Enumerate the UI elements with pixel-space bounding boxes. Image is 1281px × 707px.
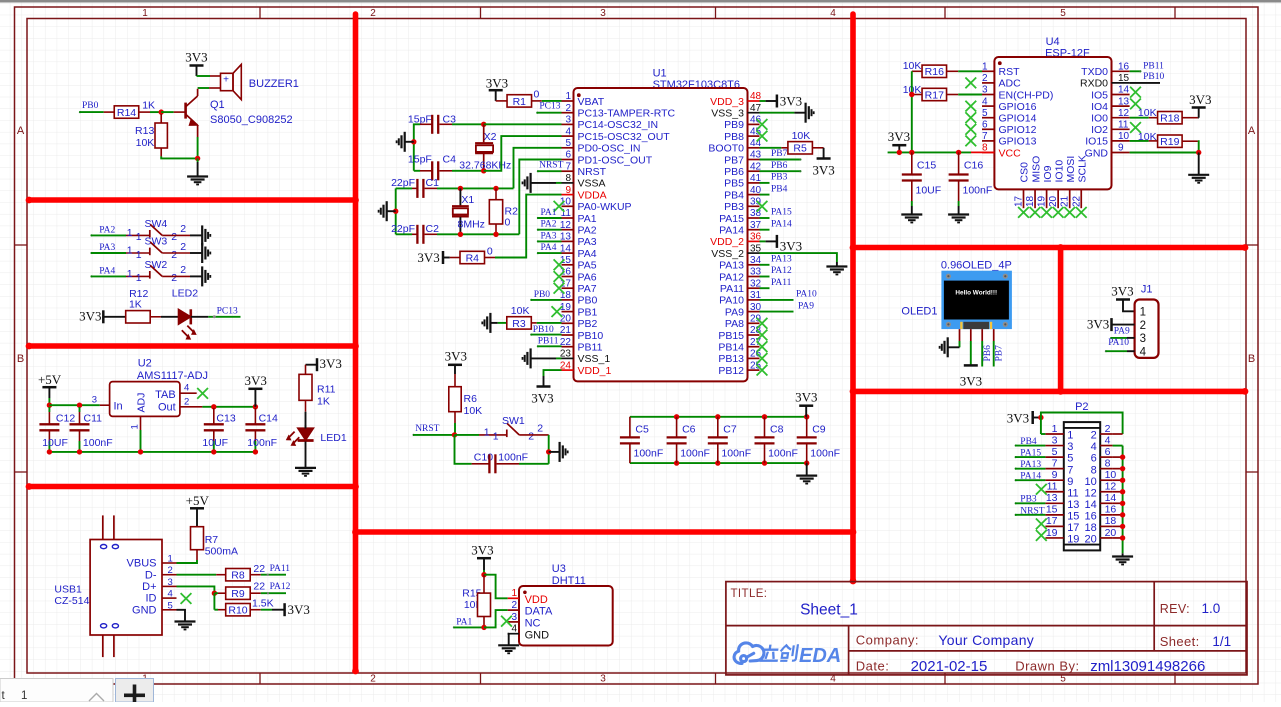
svg-text:3V3: 3V3 [531, 391, 553, 406]
wire C1/C2 left rail [395, 188, 397, 234]
svg-text:SW4: SW4 [145, 218, 168, 230]
svg-text:1: 1 [127, 227, 133, 239]
svg-text:BUZZER1: BUZZER1 [249, 78, 299, 90]
power flag 3V3 (VDD_1 pin24) [544, 370, 562, 376]
U1 pin 48 VDD_3 [748, 100, 760, 102]
svg-text:22pF: 22pF [391, 177, 415, 189]
svg-text:PA5: PA5 [578, 260, 597, 272]
svg-text:RST: RST [999, 66, 1021, 78]
power flag 3V3 (R5) [823, 148, 825, 159]
svg-text:10UF: 10UF [916, 184, 942, 196]
P2 pin 15 [1045, 514, 1063, 516]
svg-text:R19: R19 [1160, 136, 1179, 148]
section divider horizontal line y532 [356, 529, 854, 535]
svg-text:2: 2 [528, 431, 534, 443]
svg-text:PA7: PA7 [578, 283, 597, 295]
wire SW4 to gnd [162, 234, 190, 236]
wire R19 to GND rail [1197, 141, 1200, 152]
svg-text:14: 14 [1085, 499, 1097, 511]
svg-text:R13: R13 [135, 125, 154, 137]
power flag 3V3 (VDD_3 pin48) [760, 100, 766, 102]
U1 pin 34 PA13 [748, 264, 760, 266]
svg-text:ID: ID [146, 593, 157, 605]
svg-text:4: 4 [1105, 434, 1111, 446]
svg-text:Hello World!!!: Hello World!!! [955, 289, 997, 296]
svg-text:U2: U2 [138, 358, 152, 370]
wire NRST [412, 434, 414, 436]
ground (32k osc) [404, 132, 406, 152]
svg-text:PA11: PA11 [771, 278, 792, 288]
P2 pin 13 [1045, 502, 1063, 504]
svg-text:PC14-OSC32_IN: PC14-OSC32_IN [578, 119, 659, 131]
svg-text:PB1: PB1 [578, 306, 598, 318]
power flag 3V3 (R10) [283, 603, 286, 616]
U1 pin 21 PB10 [562, 334, 574, 336]
bottom osc rail [460, 233, 519, 235]
svg-text:100nF: 100nF [768, 447, 798, 459]
no-connect pins 29-25 [757, 318, 768, 329]
svg-text:10K: 10K [136, 137, 155, 149]
svg-text:1: 1 [511, 588, 517, 599]
junction 3V3/R15 [481, 572, 486, 577]
svg-text:PB6: PB6 [724, 166, 744, 178]
svg-text:3V3: 3V3 [79, 309, 101, 324]
svg-text:Q1: Q1 [210, 99, 225, 111]
svg-text:C13: C13 [216, 413, 235, 425]
svg-text:6: 6 [982, 120, 988, 131]
U1 pin 44 BOOT0 [748, 147, 760, 149]
wire PA3 to SW3 [90, 252, 92, 254]
wire SW2 to gnd [162, 275, 190, 277]
wire D+ to R10 [213, 593, 215, 610]
U4 pin 20 IO10 [1057, 189, 1059, 208]
add sheet button [116, 679, 154, 703]
svg-text:0.96OLED_4P: 0.96OLED_4P [941, 260, 1012, 272]
svg-text:VCC: VCC [999, 147, 1022, 159]
P2 pin 16 [1100, 514, 1112, 516]
U1 pin 36 VDD_2 [748, 240, 760, 242]
LED1 [298, 428, 314, 440]
U4 pin 6 GPIO12 [982, 128, 994, 130]
svg-text:PA10: PA10 [719, 295, 744, 307]
svg-text:3V3: 3V3 [445, 349, 467, 364]
transistor Q1 S8050_C908252 [184, 103, 187, 119]
svg-text:SW2: SW2 [145, 259, 168, 271]
svg-text:18: 18 [1105, 515, 1117, 527]
svg-text:REV:: REV: [1160, 602, 1190, 616]
svg-text:4: 4 [1140, 346, 1147, 358]
svg-text:Your Company: Your Company [938, 632, 1034, 648]
svg-text:1.5K: 1.5K [252, 597, 274, 609]
row tick marks [15, 244, 28, 246]
resistor R1 0 [507, 95, 532, 107]
resistor R6 10K [454, 374, 456, 387]
U3 pin 4 GND + ground [508, 633, 519, 635]
svg-text:18: 18 [1025, 195, 1036, 207]
svg-text:ADC: ADC [999, 78, 1022, 90]
top window edge bar [0, 0, 1281, 3]
U3 pin 1 VDD [508, 597, 519, 599]
svg-text:NRST: NRST [578, 166, 607, 178]
svg-text:GPIO14: GPIO14 [999, 113, 1037, 125]
P2 pin 8 [1100, 468, 1112, 470]
OLED pin 1 GND [959, 329, 961, 341]
svg-text:CS0: CS0 [1019, 162, 1031, 183]
svg-text:29: 29 [750, 314, 762, 325]
U1 pin 26 PB13 [748, 357, 760, 359]
wire C3 left elbow [414, 124, 417, 171]
junction X2 bottom [481, 168, 486, 173]
ground (VSS_3 pin47) [760, 112, 795, 114]
pin ID no-connect [181, 593, 192, 604]
wire 3V3 to VDD pin1 [484, 575, 508, 599]
svg-text:AMS1117-ADJ: AMS1117-ADJ [137, 370, 208, 382]
svg-text:RXD0: RXD0 [1080, 78, 1108, 90]
svg-text:R7: R7 [205, 534, 219, 546]
svg-text:EN(CH-PD): EN(CH-PD) [999, 89, 1054, 101]
U1 pin 28 PB15 [748, 334, 760, 336]
svg-text:2: 2 [1140, 320, 1146, 332]
svg-text:6: 6 [1105, 446, 1111, 458]
svg-text:+5V: +5V [186, 493, 210, 508]
svg-text:LED2: LED2 [172, 288, 198, 300]
svg-text:PA6: PA6 [578, 271, 597, 283]
svg-text:3V3: 3V3 [471, 543, 493, 558]
svg-text:PB9: PB9 [724, 119, 744, 131]
svg-text:PD1-OSC_OUT: PD1-OSC_OUT [578, 154, 653, 166]
P2 pin 17 [1045, 525, 1063, 527]
ground (C16) [948, 213, 969, 215]
svg-text:3: 3 [1140, 333, 1146, 345]
svg-text:10K: 10K [792, 130, 811, 142]
svg-text:VDDA: VDDA [578, 189, 607, 201]
svg-text:8: 8 [1091, 464, 1097, 476]
svg-text:SW3: SW3 [145, 236, 168, 248]
svg-text:12: 12 [560, 220, 572, 231]
svg-text:GPIO13: GPIO13 [999, 136, 1037, 148]
svg-text:5: 5 [1067, 453, 1073, 465]
svg-text:A: A [1248, 125, 1256, 137]
svg-text:2: 2 [180, 264, 186, 276]
svg-text:PA13: PA13 [719, 260, 744, 272]
svg-text:PB0: PB0 [534, 290, 551, 300]
svg-text:GPIO12: GPIO12 [999, 124, 1037, 136]
svg-text:PB6: PB6 [983, 345, 993, 362]
no-connect pins 15-17 [554, 259, 565, 270]
svg-text:2: 2 [1091, 430, 1097, 442]
svg-text:100nF: 100nF [680, 447, 710, 459]
svg-text:PB14: PB14 [718, 342, 744, 354]
svg-text:MOSI: MOSI [1065, 156, 1077, 183]
U3 pin 2 DATA [508, 609, 519, 611]
svg-text:1: 1 [484, 426, 490, 438]
wire PA4 to SW2 [90, 275, 92, 277]
svg-text:C11: C11 [84, 413, 103, 425]
svg-text:5: 5 [565, 138, 571, 149]
column tick marks top [259, 7, 261, 19]
U4 pin 15 RXD0 [1112, 82, 1130, 84]
svg-text:C12: C12 [56, 413, 75, 425]
svg-text:R4: R4 [466, 252, 480, 264]
U1 pin 40 PB4 [748, 194, 760, 196]
svg-text:Drawn By:: Drawn By: [1015, 659, 1079, 674]
svg-text:8: 8 [565, 173, 571, 184]
svg-text:VBAT: VBAT [578, 96, 605, 108]
resistor R9 22 [226, 587, 251, 599]
P2 pin 12 [1100, 491, 1112, 493]
svg-text:14: 14 [560, 243, 572, 254]
svg-text:PB10: PB10 [578, 330, 604, 342]
svg-text:PA11: PA11 [720, 283, 744, 295]
resistor R11 1K [305, 365, 307, 375]
svg-text:0: 0 [534, 88, 540, 100]
svg-text:19: 19 [1067, 534, 1079, 546]
svg-text:IO5: IO5 [1091, 89, 1108, 101]
svg-text:PB0: PB0 [578, 295, 598, 307]
U1 pin 12 PA2 [562, 229, 574, 231]
svg-text:D+: D+ [142, 581, 156, 593]
capacitor C8 100nF [762, 414, 767, 419]
svg-text:100nF: 100nF [498, 452, 528, 464]
no-connect pin45 PB8 [757, 131, 768, 142]
svg-text:zml13091498266: zml13091498266 [1090, 658, 1205, 675]
svg-text:3V3: 3V3 [486, 76, 508, 91]
svg-text:17: 17 [1014, 195, 1025, 207]
svg-text:19: 19 [1037, 195, 1048, 207]
svg-text:13: 13 [1118, 96, 1130, 107]
U4 pin 22 SCLK [1080, 189, 1082, 208]
svg-text:PB13: PB13 [718, 353, 744, 365]
section divider vertical line x853 [850, 14, 856, 581]
U1 pin 7 NRST [562, 170, 574, 172]
svg-text:R14: R14 [117, 107, 136, 119]
svg-text:R17: R17 [925, 89, 944, 101]
svg-text:PA14: PA14 [719, 225, 744, 237]
svg-text:P2: P2 [1075, 401, 1088, 413]
wire pin5 elbow [514, 148, 562, 189]
svg-text:6: 6 [565, 150, 571, 161]
U4 pin 2 ADC [982, 82, 994, 84]
no-connect P2 pins 11 17 19 [1036, 484, 1047, 495]
wire emitter down [197, 125, 199, 137]
svg-text:3: 3 [1052, 434, 1058, 446]
svg-text:15: 15 [560, 255, 572, 266]
junction gnd tap (32k) [411, 139, 416, 144]
capacitor C14 100nF [254, 408, 256, 424]
svg-text:VSS_2: VSS_2 [711, 248, 744, 260]
svg-text:PB10: PB10 [533, 325, 554, 335]
P2 pin 10 [1100, 479, 1112, 481]
svg-text:B: B [1248, 353, 1255, 365]
svg-text:U4: U4 [1046, 36, 1060, 48]
U4 pin 17 CS0 [1023, 189, 1025, 208]
svg-text:4: 4 [565, 126, 571, 137]
svg-text:2: 2 [1105, 423, 1111, 435]
capacitor C13 10UF [213, 408, 215, 424]
svg-text:VDD_1: VDD_1 [578, 365, 612, 377]
svg-text:1: 1 [136, 249, 142, 261]
svg-text:1: 1 [127, 245, 133, 257]
svg-text:SW1: SW1 [502, 415, 525, 427]
svg-text:GPIO16: GPIO16 [999, 101, 1037, 113]
svg-text:2: 2 [171, 249, 177, 261]
svg-text:2: 2 [511, 600, 517, 611]
svg-text:1: 1 [142, 8, 148, 19]
title block frame [726, 582, 1247, 675]
OLED corner screws [946, 274, 951, 279]
U1 pin 16 PA6 [562, 276, 574, 278]
no-connect IO2 [1130, 122, 1141, 133]
svg-text:0: 0 [505, 217, 511, 229]
svg-text:6: 6 [1091, 453, 1097, 465]
LCEDA logo glyph chuang [780, 645, 798, 661]
junction gnd tap (SW1) [546, 449, 551, 454]
svg-text:2: 2 [370, 8, 376, 19]
U1 pin 15 PA5 [562, 264, 574, 266]
no-connect pin10 [554, 201, 565, 212]
svg-text:1: 1 [493, 431, 499, 443]
junction R19/GND [1196, 150, 1201, 155]
svg-text:2: 2 [565, 103, 571, 114]
svg-text:PA11: PA11 [270, 564, 291, 574]
svg-text:3V3: 3V3 [960, 374, 982, 389]
U4 pin 11 IO2 [1112, 128, 1130, 130]
P2 pin 14 [1100, 502, 1112, 504]
svg-text:7: 7 [982, 131, 988, 142]
wire R7 to VBUS [177, 560, 198, 563]
svg-text:PD0-OSC_IN: PD0-OSC_IN [578, 143, 641, 155]
P2 pin 1 [1045, 433, 1063, 435]
svg-text:Sheet_1: Sheet_1 [800, 602, 858, 619]
svg-text:PB8: PB8 [724, 131, 744, 143]
svg-text:100nF: 100nF [247, 437, 277, 449]
svg-text:PA4: PA4 [578, 248, 597, 260]
svg-text:PB2: PB2 [578, 318, 598, 330]
U1 pin 1 VBAT [562, 100, 574, 102]
svg-text:24: 24 [560, 360, 572, 371]
svg-text:C2: C2 [426, 223, 440, 235]
P2 pin 4 [1100, 445, 1112, 447]
wire 3V3 to P2 pin1/pin2 [1041, 413, 1123, 435]
power flag 3V3 (VDD_2 pin36) [760, 240, 766, 242]
svg-text:5: 5 [1060, 8, 1066, 19]
svg-text:15pF: 15pF [408, 153, 432, 165]
svg-text:3V3: 3V3 [812, 162, 834, 177]
U4 pin 4 GPIO16 [982, 105, 994, 107]
svg-text:C14: C14 [259, 413, 278, 425]
svg-text:USB1: USB1 [54, 584, 82, 596]
svg-text:22: 22 [253, 563, 265, 575]
svg-text:20: 20 [1048, 195, 1059, 207]
svg-text:PB10: PB10 [1143, 72, 1164, 82]
wire PA1 to DATA pin2 [484, 610, 508, 627]
svg-text:C15: C15 [917, 159, 936, 171]
U4 pin 8 VCC [982, 152, 994, 154]
junction NRST node [452, 432, 457, 437]
power flag 3V3 (R18) [1197, 117, 1200, 119]
svg-text:9: 9 [1052, 469, 1058, 481]
U1 pin 23 VSS_1 [562, 357, 574, 359]
resistor R2 0 [493, 186, 498, 191]
U1 pin 9 VDDA [562, 194, 574, 196]
svg-text:1: 1 [127, 268, 133, 280]
U4 pin 9 GND [1112, 152, 1130, 154]
ground (ESP) [1188, 174, 1209, 176]
svg-text:IO9: IO9 [1042, 165, 1054, 182]
wire base junction [159, 109, 164, 114]
svg-text:TAB: TAB [155, 389, 176, 401]
svg-text:PB12: PB12 [718, 365, 744, 377]
svg-text:PA9: PA9 [725, 306, 744, 318]
svg-text:U1: U1 [653, 68, 667, 80]
svg-text:22: 22 [1071, 195, 1082, 207]
svg-text:2: 2 [370, 674, 376, 685]
svg-text:U3: U3 [552, 563, 566, 575]
svg-text:9: 9 [565, 185, 571, 196]
svg-text:18: 18 [1085, 522, 1097, 534]
svg-text:39: 39 [750, 197, 762, 208]
svg-text:17: 17 [1046, 515, 1058, 527]
svg-text:3V3: 3V3 [320, 356, 342, 371]
U1 pin 46 PB9 [748, 123, 760, 125]
svg-text:R9: R9 [231, 588, 245, 600]
svg-text:3V3: 3V3 [795, 389, 817, 404]
U1 pin 43 PB7 [748, 159, 760, 161]
svg-text:NC: NC [525, 618, 541, 630]
svg-text:14: 14 [1105, 492, 1117, 504]
svg-text:1: 1 [136, 231, 142, 243]
svg-text:17: 17 [1067, 522, 1079, 534]
U1 pin 29 PA8 [748, 322, 760, 324]
U1 pin 35 VSS_2 [748, 252, 760, 254]
svg-text:1: 1 [1067, 430, 1073, 442]
svg-text:X1: X1 [461, 194, 474, 206]
svg-text:PA0-WKUP: PA0-WKUP [578, 201, 632, 213]
divider junction dots [352, 197, 359, 204]
svg-text:R18: R18 [1160, 113, 1179, 125]
svg-text:PA10: PA10 [1108, 338, 1129, 348]
svg-text:13: 13 [1067, 499, 1079, 511]
U4 pin 18 MISO [1034, 189, 1036, 208]
U1 pin 10 PA0-WKUP [562, 205, 574, 207]
svg-text:MISO: MISO [1030, 156, 1042, 183]
svg-text:100nF: 100nF [810, 447, 840, 459]
U1 pin 18 PB0 [562, 299, 574, 301]
svg-text:+: + [223, 75, 229, 86]
svg-text:3V3: 3V3 [780, 238, 802, 253]
capacitor C6 100nF [674, 414, 679, 419]
svg-text:1K: 1K [129, 298, 142, 310]
svg-text:1: 1 [1140, 307, 1146, 319]
svg-text:500mA: 500mA [205, 545, 238, 557]
svg-text:+5V: +5V [38, 372, 62, 387]
U1 pin 13 PA3 [562, 240, 574, 242]
ground (USB) [175, 620, 196, 622]
svg-text:X2: X2 [484, 131, 497, 143]
svg-text:PC13: PC13 [539, 102, 560, 112]
svg-text:IO4: IO4 [1091, 101, 1108, 113]
buzzer BUZZER1 [221, 73, 234, 90]
U1 pin 42 PB6 [748, 170, 760, 172]
svg-text:PA12: PA12 [270, 582, 291, 592]
svg-text:13: 13 [560, 232, 572, 243]
U1 pin 32 PA11 [748, 287, 760, 289]
ground (8M osc) [386, 201, 388, 221]
no-connect pin2 ADC [965, 78, 976, 89]
section divider vertical line x355 [353, 14, 359, 671]
svg-text:PC13-TAMPER-RTC: PC13-TAMPER-RTC [578, 108, 676, 120]
svg-text:PB3: PB3 [771, 173, 788, 183]
